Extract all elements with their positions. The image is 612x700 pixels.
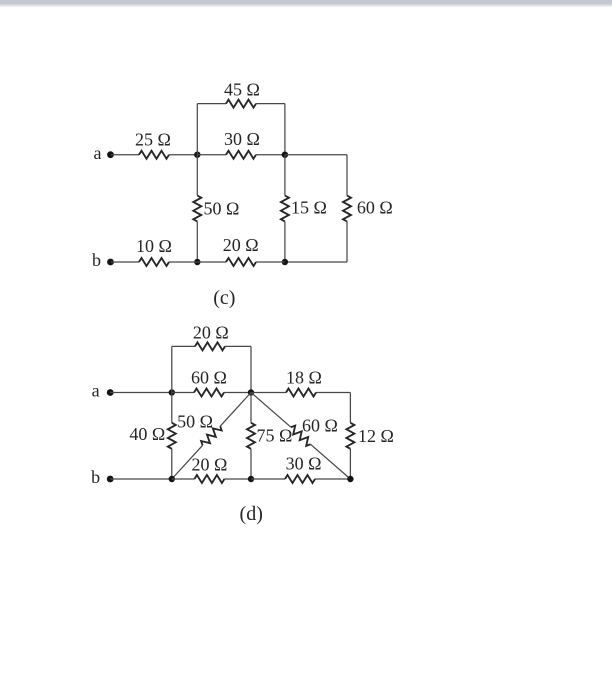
wire 20-ohm to top-right (d) — [225, 345, 251, 347]
junction node1 bottom (c) — [194, 259, 200, 265]
wire node1 up (c) — [196, 104, 198, 155]
terminal node b (d) — [107, 476, 114, 483]
svg-text:(c): (c) — [213, 287, 235, 309]
resistor 60 ohm diagonal (d) — [251, 393, 350, 480]
svg-text:20 Ω: 20 Ω — [193, 322, 229, 342]
resistor 20 ohm top (d) — [195, 342, 225, 350]
wire center to 18-ohm (d) — [251, 392, 286, 394]
wire right rail lower (d) — [349, 449, 351, 479]
wire center down upper (d) — [250, 393, 252, 423]
wire 25-ohm to node1 (c) — [169, 154, 197, 156]
resistor 25 ohm (c) — [139, 151, 169, 159]
resistor 18 ohm (d) — [286, 389, 316, 397]
wire node2 down upper (c) — [284, 155, 286, 196]
svg-text:45 Ω: 45 Ω — [224, 79, 260, 99]
resistor 50 ohm (c) — [193, 196, 201, 222]
wire 75-ohm to bottom (d) — [250, 449, 252, 479]
wire node2 to right rail (c) — [285, 154, 347, 156]
top banner bar — [0, 0, 612, 8]
resistor 20 ohm bottom (d) — [194, 475, 224, 483]
wire 10-ohm to node1 bottom (c) — [169, 261, 197, 263]
junction node1 top (c) — [194, 152, 200, 158]
wire node1 to 30-ohm (c) — [197, 154, 226, 156]
wire top-right down (d) — [250, 346, 252, 392]
wire node1 to 20-ohm (c) — [197, 261, 226, 263]
junction node1 bottom (d) — [169, 476, 175, 482]
wire right rail upper (c) — [346, 155, 348, 196]
junction center bottom (d) — [248, 476, 254, 482]
wire 40-ohm to bottom (d) — [171, 449, 173, 479]
wire node1 up (d) — [171, 346, 173, 392]
wire b to 10-ohm (c) — [111, 261, 139, 263]
wire 20-ohm to center bottom (d) — [224, 478, 251, 480]
svg-text:50 Ω: 50 Ω — [177, 411, 213, 431]
junction node2 bottom (c) — [282, 259, 288, 265]
wire 60-ohm to center node (d) — [224, 392, 251, 394]
resistor 30 ohm (c) — [226, 151, 256, 159]
svg-text:12 Ω: 12 Ω — [358, 426, 394, 446]
svg-text:a: a — [92, 381, 100, 401]
wire node1 to 60-ohm (d) — [172, 392, 194, 394]
svg-text:50 Ω: 50 Ω — [204, 199, 240, 219]
resistor 50 ohm diagonal (d) — [172, 393, 251, 480]
wire top-right down (c) — [284, 104, 286, 155]
wire node1 down upper (d) — [171, 393, 173, 423]
svg-text:(d): (d) — [240, 503, 263, 525]
svg-text:30 Ω: 30 Ω — [286, 453, 322, 473]
wire center to 30-ohm bottom (d) — [251, 478, 285, 480]
svg-text:60 Ω: 60 Ω — [191, 367, 227, 387]
wire 15-ohm to bottom (c) — [284, 222, 286, 263]
resistor 60 ohm mid (d) — [194, 389, 224, 397]
svg-text:75 Ω: 75 Ω — [257, 425, 293, 445]
svg-text:b: b — [92, 250, 101, 270]
svg-text:30 Ω: 30 Ω — [224, 129, 260, 149]
svg-text:20 Ω: 20 Ω — [191, 454, 227, 474]
resistor 12 ohm (d) — [346, 423, 354, 449]
wire 30-ohm to node2 (c) — [256, 154, 285, 156]
resistor 10 ohm (c) — [139, 258, 169, 266]
wire 50-ohm to bottom (c) — [196, 222, 198, 263]
wire a to node1 (d) — [110, 392, 172, 394]
terminal node a (c) — [107, 151, 114, 158]
svg-text:10 Ω: 10 Ω — [136, 236, 172, 256]
junction node1 top (d) — [169, 389, 175, 395]
svg-text:b: b — [91, 467, 100, 487]
wire node1 to 20-ohm bottom (d) — [172, 478, 195, 480]
wire right rail lower (c) — [346, 222, 348, 263]
resistor 15 ohm (c) — [281, 196, 289, 222]
resistor 30 ohm bottom (d) — [285, 475, 315, 483]
junction node2 top (c) — [282, 152, 288, 158]
svg-text:18 Ω: 18 Ω — [286, 367, 322, 387]
svg-text:25 Ω: 25 Ω — [135, 129, 171, 149]
resistor 20 ohm (c) — [226, 258, 256, 266]
junction center node (d) — [248, 389, 254, 395]
wire 30-ohm to right bottom (d) — [315, 478, 350, 480]
svg-text:a: a — [94, 143, 102, 163]
wire bottom-right rail (c) — [285, 261, 347, 263]
terminal node a (d) — [107, 389, 114, 396]
wire top-left to 20-ohm (d) — [172, 345, 195, 347]
wire top-left to 45-ohm (c) — [197, 103, 226, 105]
wire 18-ohm to top-right corner (d) — [316, 392, 350, 394]
wire 45-ohm to top-right (c) — [256, 103, 285, 105]
junction right bottom (d) — [347, 476, 353, 482]
wire 20-ohm to node2 bottom (c) — [256, 261, 285, 263]
resistor 60 ohm right (c) — [343, 196, 351, 222]
terminal node b (c) — [107, 259, 114, 266]
svg-text:60 Ω: 60 Ω — [302, 416, 338, 436]
svg-text:40 Ω: 40 Ω — [129, 424, 165, 444]
resistor 45 ohm (c) — [226, 100, 256, 108]
wire a to 25-ohm (c) — [111, 154, 139, 156]
wire right rail upper (d) — [349, 393, 351, 423]
resistor 75 ohm (d) — [247, 423, 255, 449]
resistor 40 ohm (d) — [168, 423, 176, 449]
svg-text:15 Ω: 15 Ω — [291, 198, 327, 218]
wire b to node1 bottom (d) — [110, 478, 172, 480]
svg-text:20 Ω: 20 Ω — [223, 235, 259, 255]
wire node1 down upper (c) — [196, 155, 198, 196]
svg-text:60 Ω: 60 Ω — [357, 198, 393, 218]
